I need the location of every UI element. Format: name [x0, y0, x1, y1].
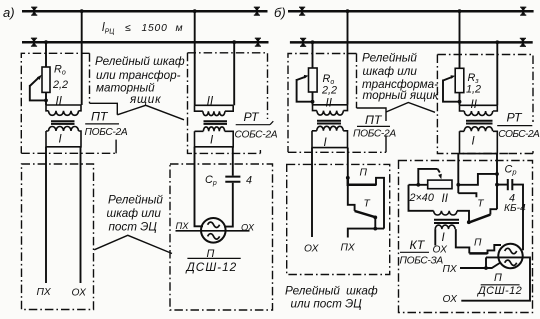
line under PT (part b)	[357, 125, 390, 127]
svg-text:РТ: РТ	[244, 110, 261, 124]
resistor Ro(b) wiper arrow	[297, 77, 306, 80]
svg-text:Ср: Ср	[205, 174, 217, 187]
transformer KT winding II scallops	[434, 211, 457, 215]
wire: branch to capacitor Cp (part b)	[497, 184, 507, 186]
node: junction of Cp branch on SOBS right lead	[495, 183, 499, 187]
node: T pivot junction on loop	[373, 227, 377, 231]
wire: bottom rail down to RT winding II	[233, 42, 235, 105]
svg-text:2×40: 2×40	[409, 192, 434, 204]
svg-text:I: I	[59, 134, 63, 146]
box b lower-left	[287, 164, 390, 274]
wire: resistor bottom to winding II	[45, 92, 47, 105]
relay DSSh-12 (part a) circle	[201, 218, 226, 243]
wire: 2x40 left lead	[409, 184, 428, 186]
insulated joint b top-right	[520, 7, 526, 16]
resistor Ro wiper arrow	[30, 78, 39, 87]
wire: SOBS winding I left lead down to T contact	[457, 154, 459, 194]
wire: tick from PX line to relay chord	[485, 257, 487, 268]
rail a top	[22, 10, 268, 13]
svg-text:ПОБС-ЗА: ПОБС-ЗА	[400, 256, 444, 267]
leader step from box b-UL to PT label	[357, 108, 387, 121]
transformer RT(a) winding I	[195, 127, 234, 147]
box b upper-right (around RT SOBS)	[437, 55, 533, 154]
insulated joint a top-right	[254, 7, 260, 16]
wire: T pivot down to loop	[374, 217, 376, 228]
wire: PT(a) winding I right lead down to OH	[80, 147, 82, 283]
svg-text:Т: Т	[364, 199, 371, 210]
svg-text:б): б)	[274, 5, 286, 20]
wire: KT winding II top line	[409, 185, 434, 211]
leader lambda from yashchik to PT and RT	[117, 105, 184, 120]
resistor Rz body	[455, 68, 464, 92]
node: bottom rail tap b-right	[495, 40, 499, 44]
transformer RT(a) winding II	[195, 105, 234, 115]
wire: wiper tail to junction (part b)	[297, 79, 313, 102]
wire: top rail down to RT winding II (crosses bottom rail)	[194, 11, 196, 105]
node: top rail tap b-left	[346, 9, 350, 13]
svg-text:или трансфор-: или трансфор-	[96, 69, 181, 82]
svg-text:или пост ЭЦ: или пост ЭЦ	[291, 298, 363, 311]
node: 2x40 wiper junction	[416, 183, 420, 187]
insulated joint a bottom-left	[31, 38, 37, 47]
node: T blade pivot (part b left)	[373, 216, 377, 220]
insulated joint a top-left	[31, 7, 37, 16]
svg-text:ОХ: ОХ	[433, 245, 449, 256]
contact P (part b left) blade	[348, 178, 376, 185]
line under P (relay a)	[187, 257, 240, 259]
contact P (part b right) anvil and lead to relay	[488, 245, 502, 254]
svg-text:ОХ: ОХ	[304, 244, 320, 255]
svg-text:ПХ: ПХ	[341, 243, 356, 254]
svg-text:Т: Т	[477, 199, 484, 210]
transformer RT-SOBS(b) winding I	[460, 127, 498, 154]
svg-text:СОБС-2А: СОБС-2А	[235, 130, 278, 141]
node: top rail tap a-right	[193, 9, 197, 13]
node: bottom rail tap a-right	[232, 40, 236, 44]
wire: PH-OH line through relay a	[176, 230, 250, 232]
wire: PT(b) winding I right lead down to contacts	[347, 148, 349, 178]
line under RT (part b)	[497, 125, 532, 127]
wire: PX line (part b right)	[460, 263, 501, 269]
label-notch stub under POBS-2A	[115, 140, 117, 154]
resistor 2x40 body	[428, 180, 452, 189]
wire: chord line through relay b	[461, 257, 530, 300]
wire: Rz bottom to SOBS winding II	[459, 93, 461, 106]
svg-text:I: I	[442, 232, 446, 244]
svg-text:П: П	[494, 272, 502, 284]
wire: top rail down to PT(b) winding II	[347, 11, 349, 105]
svg-text:П: П	[360, 168, 368, 179]
node: junction of 2x40 wire on SOBS left lead	[456, 183, 460, 187]
leader lambda from yashchik(b)	[386, 103, 435, 113]
resistor Rz wiper arrow	[443, 77, 452, 81]
wire: resistor bottom to winding II (part b)	[312, 92, 314, 105]
label-notch stub under POBS-2A (part b)	[385, 136, 387, 153]
insulated joint a bottom-right	[255, 38, 261, 47]
box a lower-left (relay cabinet post EC)	[22, 164, 94, 310]
capacitor Cp (part a) plates	[225, 177, 240, 182]
svg-text:ПТ: ПТ	[91, 110, 109, 124]
svg-text:II: II	[326, 97, 333, 109]
wire: bottom rail to resistor Ro	[45, 42, 47, 67]
svg-text:II: II	[471, 99, 478, 111]
svg-text:2,2: 2,2	[321, 85, 337, 97]
transformer PT(a) core	[51, 121, 75, 124]
svg-text:2,2: 2,2	[52, 79, 68, 91]
svg-text:пост ЭЦ: пост ЭЦ	[109, 221, 158, 234]
wire: bottom rail down to SOBS winding II	[496, 42, 498, 105]
rail b top	[288, 10, 534, 13]
svg-text:I: I	[472, 135, 476, 147]
wire: top rail down to resistor Rz (crosses bottom rail)	[459, 11, 461, 68]
wire: KT winding I left lead to OX stub	[434, 229, 436, 245]
transformer KT core	[434, 220, 459, 223]
node: wiper junction	[44, 99, 48, 103]
insulated joint b top-left	[299, 7, 305, 16]
contact T (part b left) fixed lead	[348, 185, 355, 211]
transformer PT(b) winding II	[313, 105, 348, 115]
box b lower-right	[399, 161, 533, 313]
transformer RT-SOBS(b) winding II	[460, 105, 498, 115]
svg-text:торный ящик: торный ящик	[363, 89, 439, 102]
wire: lower loop of contact group	[348, 229, 384, 238]
svg-text:ПХ: ПХ	[176, 221, 190, 231]
2x40 wiper arrow	[438, 169, 440, 173]
box b upper-left	[288, 54, 386, 153]
transformer KT winding I scallops	[435, 225, 455, 229]
node: junction on SOBS right lead upper	[495, 172, 499, 176]
svg-text:ОХ: ОХ	[443, 294, 459, 305]
transformer PT(a) winding II	[46, 105, 81, 115]
rail b bottom	[290, 41, 533, 44]
svg-text:Релейный шкаф: Релейный шкаф	[95, 55, 185, 68]
wire: PT(b) winding I left lead down to OX	[311, 148, 313, 237]
wire: Cp right plate to relay b	[513, 185, 523, 251]
resistor Ro (part b) body	[309, 68, 318, 92]
svg-text:ПОБС-2А: ПОБС-2А	[353, 129, 396, 140]
wire: Rz wiper tail to junction	[443, 80, 460, 102]
2x40 wiper loop	[418, 169, 437, 185]
svg-text:П: П	[474, 237, 482, 248]
box a upper-left (relay cabinet around PT)	[21, 53, 117, 153]
line under RT	[236, 121, 274, 125]
node: PX tick junction	[484, 266, 488, 270]
svg-text:ДСШ-12: ДСШ-12	[476, 285, 522, 297]
wire: bottom rail to resistor Ro (part b)	[312, 42, 314, 68]
svg-text:шкаф или: шкаф или	[107, 207, 162, 220]
node: top rail tap b-right	[458, 9, 462, 13]
wire: capacitor to relay right side	[224, 183, 233, 227]
transformer PT(b) core	[317, 121, 341, 124]
svg-text:1,2: 1,2	[466, 84, 481, 96]
svg-text:КБ-4: КБ-4	[504, 203, 526, 214]
relay DSSh-12 (part b) circle	[498, 244, 522, 268]
svg-text:Релейный: Релейный	[362, 52, 417, 65]
svg-text:Релейный шкаф: Релейный шкаф	[285, 285, 378, 298]
svg-text:ОХ: ОХ	[241, 223, 255, 233]
contact P (part b right) blade	[469, 252, 487, 255]
line under KT	[400, 251, 429, 253]
relay b upper squiggle	[505, 248, 517, 253]
svg-text:ДСШ-12: ДСШ-12	[185, 260, 238, 274]
contact T (part b right) blade	[469, 215, 491, 223]
svg-text:КТ: КТ	[410, 238, 426, 252]
relay a lower squiggle	[208, 234, 220, 239]
leader step from box a-UL to PT label	[90, 103, 118, 115]
contact P (part b left): node on wire	[346, 176, 350, 180]
rail a bottom	[22, 41, 269, 44]
transformer RT(a) core	[204, 121, 228, 124]
contact T (part b left) blade	[355, 211, 376, 217]
wire: wiper tail down and to junction	[30, 85, 46, 100]
capacitor Cp (part b) plates	[508, 179, 513, 190]
label-notch stub under SOBS-2A (box a-UR)	[259, 150, 261, 153]
svg-text:РТ: РТ	[507, 111, 524, 125]
transformer PT(b) winding I	[312, 126, 348, 147]
node: Rz wiper junction	[458, 100, 462, 104]
relay a upper squiggle	[208, 222, 220, 227]
svg-text:шкаф или: шкаф или	[363, 65, 418, 78]
svg-text:Rо: Rо	[54, 64, 66, 77]
transformer RT-SOBS(b) core	[466, 121, 493, 124]
wire: RT(a) winding I left lead down to relay	[195, 147, 204, 227]
svg-text:Ср: Ср	[505, 164, 517, 177]
wire: top rail tap a-left	[80, 9, 84, 13]
svg-text:ящик: ящик	[129, 93, 161, 106]
relay b lower squiggle	[505, 260, 517, 265]
svg-text:II: II	[442, 193, 449, 205]
wire: KT winding II right lead to T blade pivot	[457, 211, 469, 221]
svg-text:СОБС-2А: СОБС-2А	[498, 129, 540, 140]
leader V from post EC text to both lower boxes	[94, 235, 172, 253]
node: wiper junction (part b)	[311, 100, 315, 104]
svg-text:4: 4	[246, 175, 252, 187]
svg-text:ПХ: ПХ	[443, 264, 458, 275]
svg-text:ОХ: ОХ	[72, 288, 88, 299]
node: rail tap a-left on bottom rail	[44, 40, 48, 44]
box a lower-right (relay box with DSSh)	[170, 164, 273, 310]
svg-text:I: I	[210, 135, 214, 147]
svg-text:а): а)	[3, 5, 15, 20]
transformer PT(a) winding I	[46, 127, 81, 147]
wire: 2x40 wire over to SOBS right lead	[458, 174, 497, 185]
box a upper-right (around RT)	[188, 53, 268, 154]
wire: PT(a) winding I left lead down to PH	[45, 147, 47, 283]
node: T blade pivot (part b right)	[467, 220, 471, 224]
svg-text:ПОБС-2А: ПОБС-2А	[85, 127, 128, 138]
insulated joint b bottom-left	[300, 38, 306, 47]
line under PT	[85, 123, 119, 125]
contact T (part b right) anvil lead	[458, 193, 476, 197]
contact P (part b left) anvil and lead	[376, 178, 384, 229]
node: bottom rail tap b-left	[311, 40, 315, 44]
line under P (relay b)	[481, 284, 520, 286]
resistor Ro (part a) body	[42, 67, 50, 92]
wire: KT winding I right lead to contact P	[456, 229, 470, 253]
svg-text:ПХ: ПХ	[37, 287, 52, 298]
svg-text:lРЦ≤1500м: lРЦ≤1500м	[102, 22, 183, 36]
wire: T blade to SOBS right lead	[490, 154, 497, 215]
wire: RT(a) winding I right lead down to capacitor	[232, 147, 234, 176]
svg-text:Релейный: Релейный	[108, 194, 163, 207]
insulated joint b bottom-right	[520, 38, 526, 47]
svg-text:ПТ: ПТ	[365, 113, 383, 127]
svg-text:II: II	[207, 95, 214, 107]
svg-text:II: II	[56, 95, 63, 107]
